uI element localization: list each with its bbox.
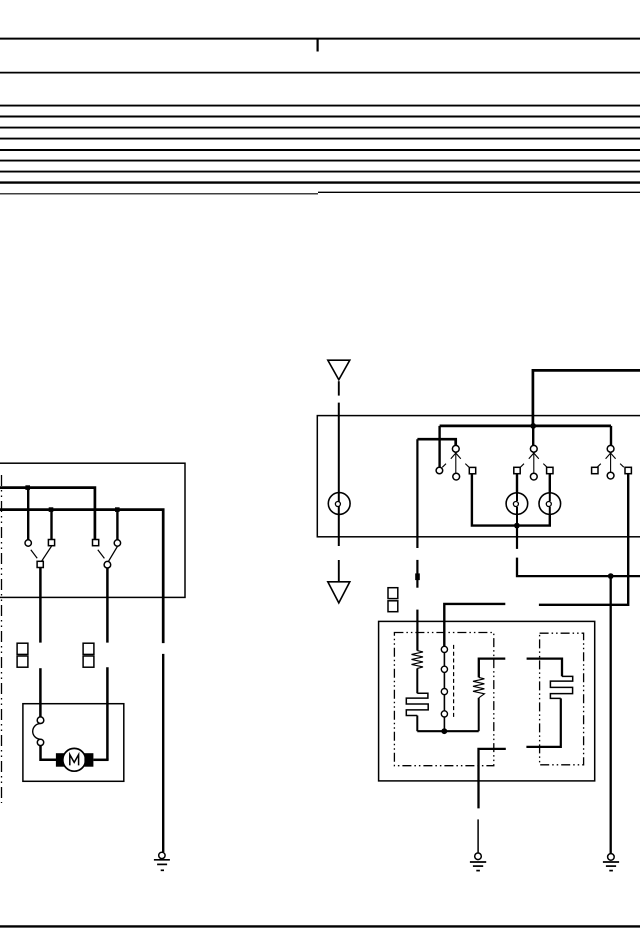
switch SW2 pivot <box>530 445 537 452</box>
table rule 7 <box>0 149 640 151</box>
ground G1 <box>159 852 165 858</box>
wire to motor right <box>106 667 109 760</box>
ground G3 <box>608 854 615 861</box>
combination switch box <box>317 416 640 537</box>
lamp L3 <box>328 493 350 515</box>
wire unit to ground G2 <box>479 749 506 809</box>
wire lamp return seg1 <box>516 527 518 549</box>
header rule 1 <box>0 38 640 40</box>
table rule 8 <box>0 160 640 162</box>
wire bus to SW1 left <box>438 426 440 467</box>
switch SW1 right contact <box>469 467 475 473</box>
switch SW3 arrow <box>606 451 613 459</box>
switch SW3 dash left <box>597 464 601 468</box>
wire SW2 left to lamp L1 <box>516 474 518 493</box>
circuit breaker top terminal <box>37 717 44 724</box>
wire motor to right riser <box>93 759 108 762</box>
header tick <box>317 39 319 52</box>
wire bus to SW3 pivot <box>610 426 612 445</box>
table rule 4 <box>0 116 640 118</box>
switch S2 left contact <box>93 540 99 546</box>
wire SW3 right down <box>539 474 628 605</box>
wire C5 bottom <box>526 698 560 747</box>
motor M1 <box>63 748 86 771</box>
switch S1 right contact <box>48 540 54 546</box>
riser wire upper <box>416 439 418 548</box>
switch SW2 linkage <box>533 453 535 473</box>
junction dot ground branch <box>608 573 614 579</box>
switch SW1 dash left <box>442 464 446 468</box>
switch S2 common contact <box>104 561 111 568</box>
junction dot B1 <box>49 507 54 512</box>
riser connector blob <box>415 573 420 580</box>
connector C1 pin box lower <box>17 656 28 667</box>
connector C3 pin box upper <box>388 588 398 599</box>
switch SW3 left contact <box>592 467 598 473</box>
wire SW2 right to lamp L2 <box>549 474 551 493</box>
header rule 2 <box>0 72 640 74</box>
table rule 6 <box>0 138 640 140</box>
component boundary dash-dot line <box>1 475 3 803</box>
wire G2 lower <box>477 819 479 852</box>
wire feed to SW2 pivot <box>532 426 534 446</box>
arrow triangle top <box>328 360 350 380</box>
connector C3 pin box lower <box>388 601 398 612</box>
wire to ground G3 <box>610 576 612 853</box>
motor brush right <box>84 753 93 767</box>
switch S1 arm <box>41 546 51 562</box>
switch SW2 right contact <box>547 467 553 473</box>
control unit inner dashed box left <box>394 633 493 766</box>
circuit breaker arc <box>33 724 41 740</box>
terminal strip dashed boundary <box>453 645 455 719</box>
wire C4 down <box>416 716 418 732</box>
switch S1 left contact <box>25 540 31 546</box>
table rule 3 <box>0 105 640 107</box>
wire bottom bus <box>417 730 478 732</box>
switch S1 common contact <box>37 561 43 567</box>
thin rule left <box>0 193 318 195</box>
resistor R1 <box>412 651 424 669</box>
bus wire <box>440 425 611 428</box>
wire drop B1 <box>50 510 52 540</box>
connector C2 pin box upper <box>83 643 94 654</box>
switch SW3 bottom contact <box>607 472 614 479</box>
switch SW1 left contact <box>436 467 443 474</box>
switch SW1 arrow <box>451 451 458 459</box>
circuit breaker bottom terminal <box>37 739 43 745</box>
connector C2 pin box lower <box>83 656 94 667</box>
junction dot A <box>25 485 30 490</box>
switch SW1 dash right <box>465 464 469 468</box>
switch SW3 pivot <box>607 445 614 452</box>
switch SW1 linkage <box>455 453 457 473</box>
left switch unit box <box>0 463 185 597</box>
table rule 5 <box>0 127 640 129</box>
wire from riser to SW1 pivot <box>417 439 455 445</box>
wire R1 to C4 <box>416 668 418 693</box>
motor brush left <box>56 753 65 767</box>
motor box <box>23 704 124 782</box>
wire S2 common down <box>106 568 109 643</box>
switch SW1 bottom contact <box>453 473 460 480</box>
wire long riser lower <box>162 654 164 852</box>
wire A <box>0 488 95 540</box>
control unit inner dashed box right <box>540 633 584 765</box>
wire B <box>0 510 163 643</box>
junction dot B2 <box>115 507 120 512</box>
arrow triangle bottom <box>328 582 350 603</box>
wire R2 bottom <box>478 698 480 731</box>
wire to breaker <box>39 668 42 717</box>
wire breaker to motor <box>41 746 57 760</box>
switch S1 throw dash <box>31 550 37 558</box>
lamp L1 <box>506 493 528 515</box>
switch SW2 dash right <box>543 464 547 468</box>
wire C5 top <box>527 659 562 677</box>
switch S2 arm <box>108 546 117 561</box>
control unit box <box>379 621 595 781</box>
riser wire lower segment <box>416 610 418 651</box>
wire dash below triangle <box>338 381 340 395</box>
wire S1 common down <box>39 568 42 643</box>
wire through lamp L3 <box>338 403 340 546</box>
switch SW3 right contact <box>625 467 631 473</box>
switch SW2 dash left <box>520 464 524 468</box>
resistor R2 <box>473 677 484 697</box>
wire drop A1 <box>27 488 29 540</box>
terminal strip <box>441 646 447 652</box>
ground G2 <box>475 853 482 860</box>
feed wire top right <box>533 370 640 426</box>
switch SW3 dash right <box>620 464 624 468</box>
switch SW2 bottom contact <box>530 473 537 480</box>
lamp L2 <box>539 493 561 515</box>
wire lamp return seg2 <box>517 558 640 577</box>
thin rule right <box>318 191 640 193</box>
capacitor C4 <box>406 693 428 715</box>
table rule 10 <box>0 181 640 183</box>
switch SW3 linkage <box>610 453 612 472</box>
wire to terminal strip <box>444 604 505 646</box>
wire drop B2 <box>116 510 118 540</box>
wire R2 top <box>479 659 506 678</box>
table rule 9 <box>0 171 640 173</box>
riser wire connector segment <box>416 560 418 588</box>
switch SW2 arrow <box>529 451 536 459</box>
connector C1 pin box upper <box>17 643 28 654</box>
wire dash to bottom triangle <box>338 560 340 582</box>
switch SW1 pivot <box>452 445 459 452</box>
wire SW1 right down and across <box>472 474 550 526</box>
junction dot bottom bus <box>441 728 447 734</box>
capacitor C5 <box>550 676 572 698</box>
switch S2 throw dash <box>98 550 105 559</box>
bottom rule <box>0 925 640 927</box>
switch SW2 left contact <box>514 467 520 473</box>
junction dot bus <box>530 423 536 429</box>
junction dot lamps <box>514 523 520 529</box>
switch S2 right contact <box>114 540 120 546</box>
